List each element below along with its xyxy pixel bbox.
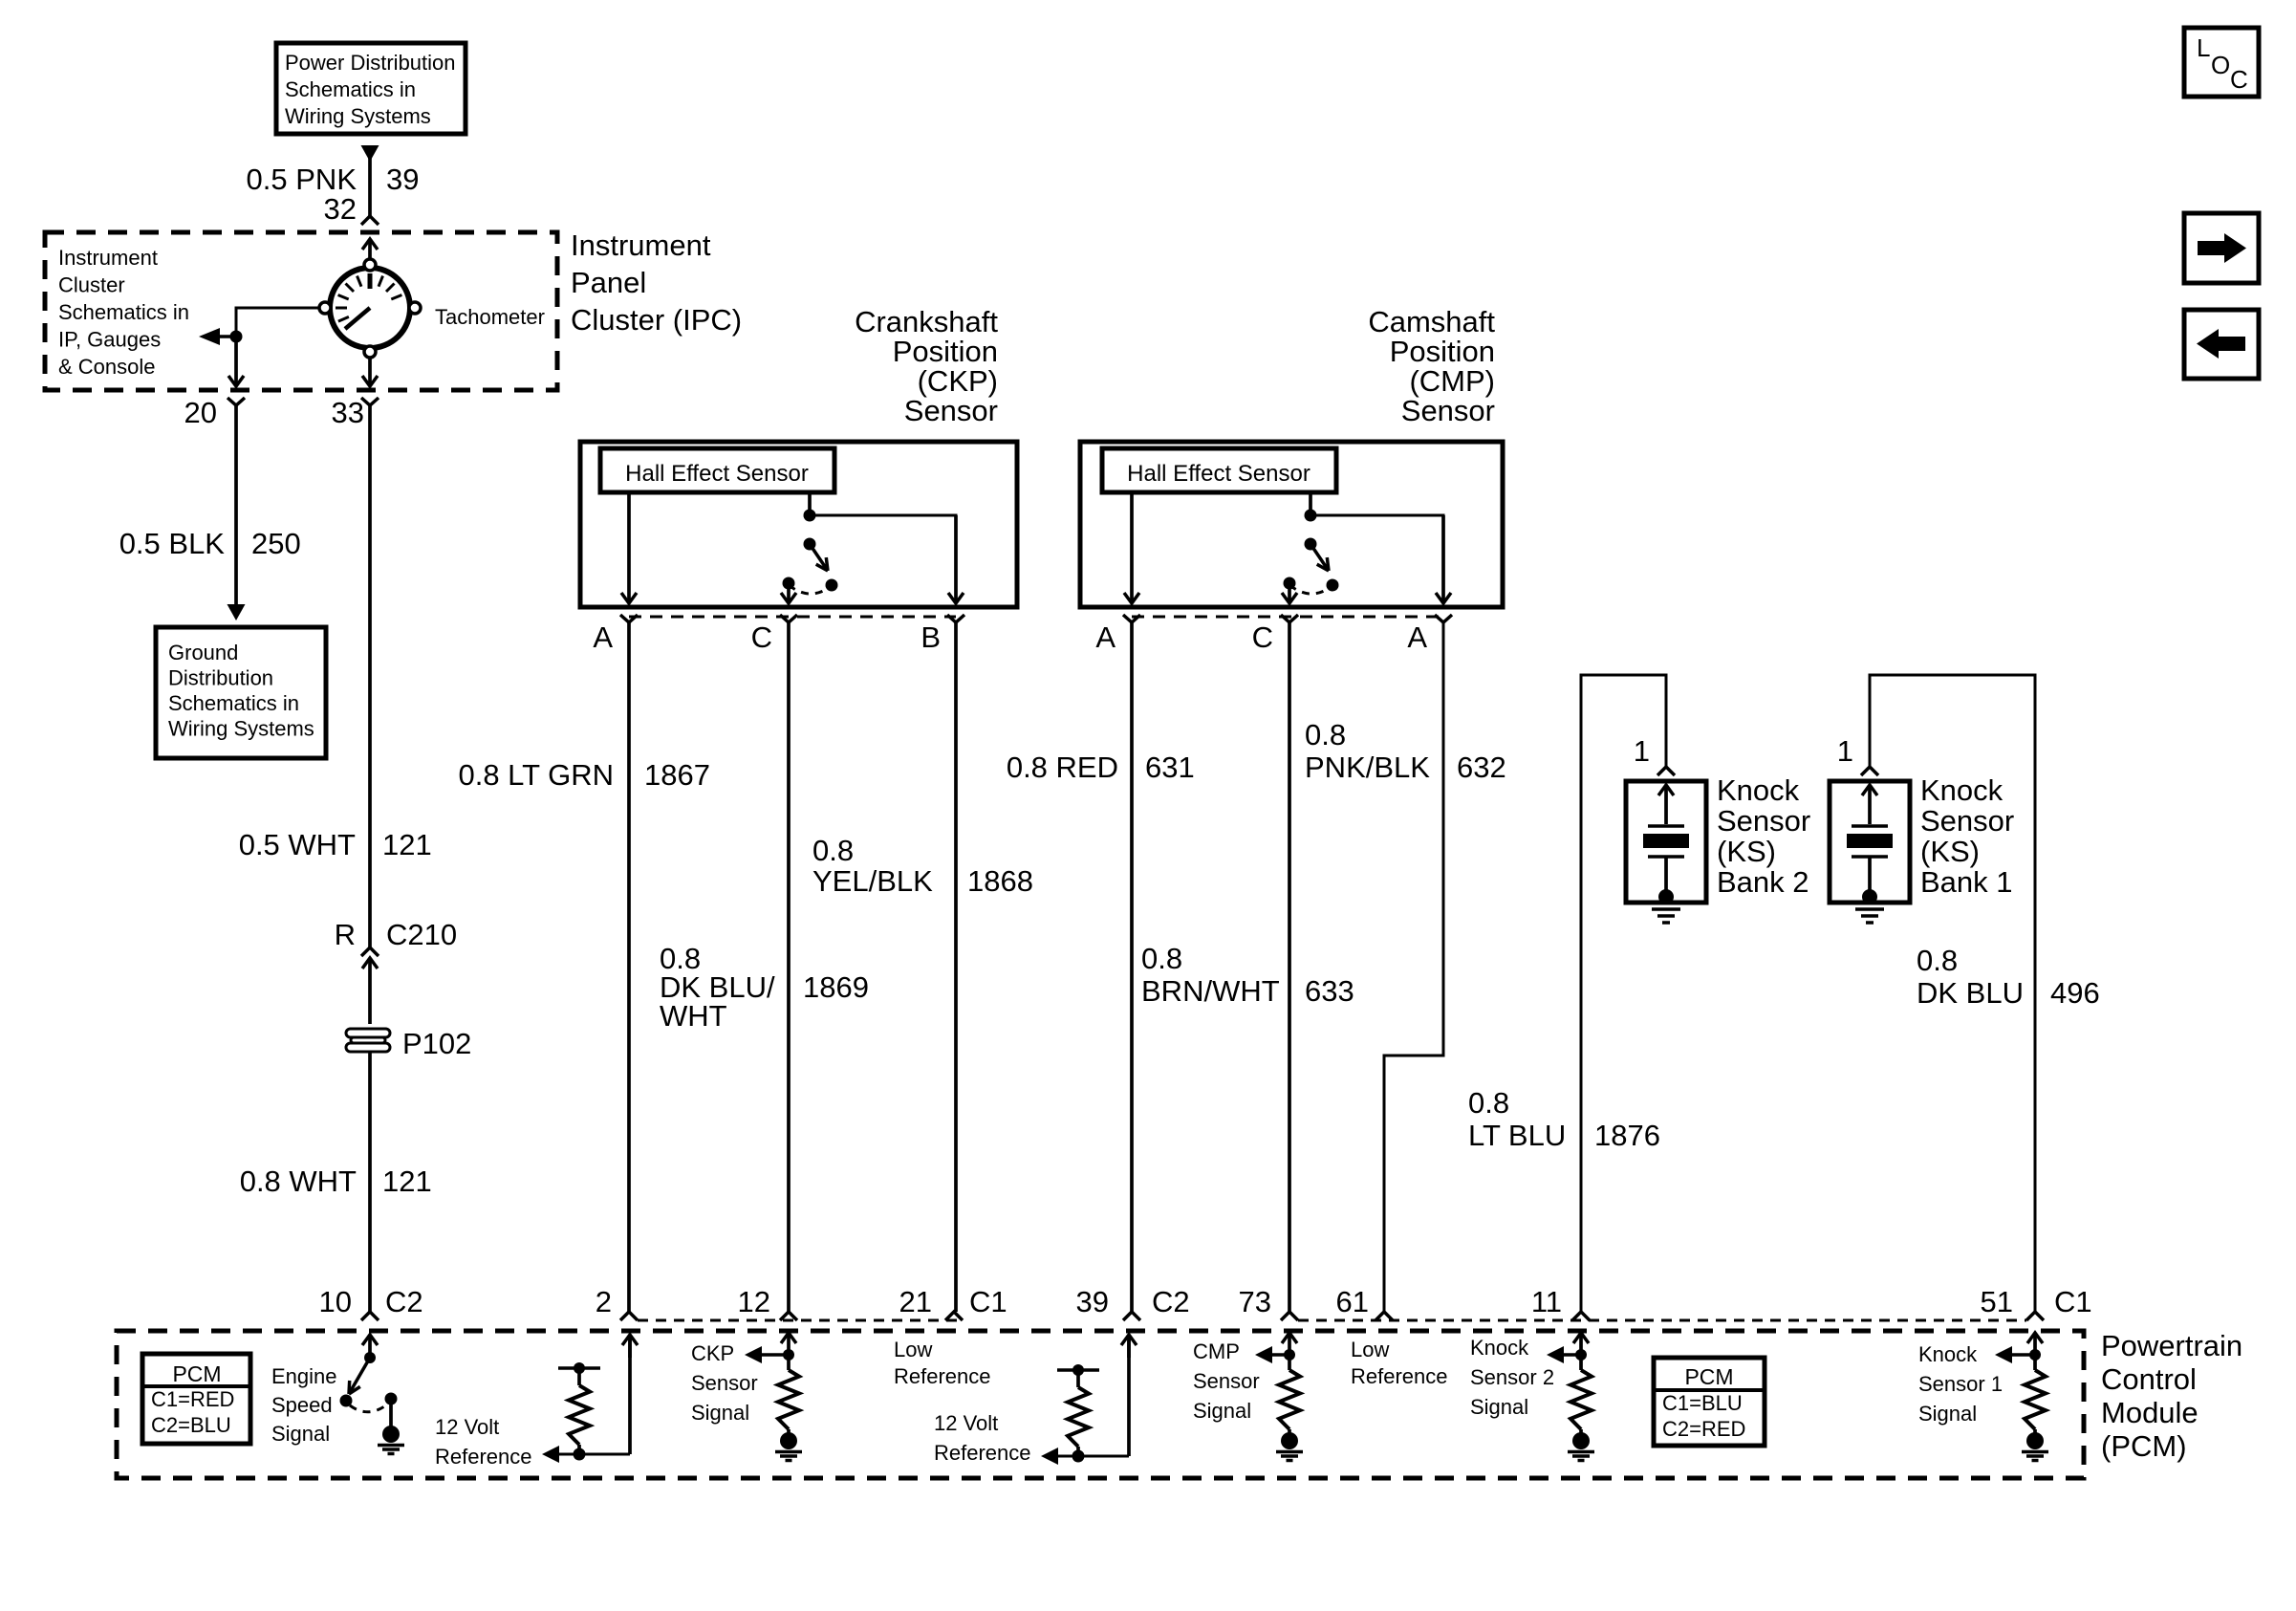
- svg-text:121: 121: [382, 1165, 432, 1198]
- svg-text:PCM: PCM: [1684, 1364, 1733, 1389]
- svg-text:Signal: Signal: [1193, 1399, 1251, 1423]
- svg-text:Engine: Engine: [271, 1364, 337, 1388]
- svg-text:Position: Position: [893, 335, 998, 368]
- svg-text:A: A: [593, 620, 613, 654]
- svg-text:0.8: 0.8: [812, 834, 854, 867]
- svg-text:C1=RED: C1=RED: [151, 1387, 234, 1411]
- svg-text:Crankshaft: Crankshaft: [855, 305, 998, 338]
- svg-text:IP, Gauges: IP, Gauges: [58, 328, 161, 352]
- svg-text:DK BLU: DK BLU: [1917, 976, 2024, 1010]
- svg-text:C1=BLU: C1=BLU: [1662, 1391, 1743, 1415]
- svg-text:Powertrain: Powertrain: [2101, 1329, 2242, 1362]
- svg-text:Sensor 1: Sensor 1: [1918, 1372, 2003, 1396]
- svg-text:CMP: CMP: [1193, 1339, 1240, 1363]
- svg-text:YEL/BLK: YEL/BLK: [812, 864, 933, 898]
- svg-text:(KS): (KS): [1920, 835, 1980, 868]
- svg-text:O: O: [2211, 51, 2230, 79]
- svg-text:PNK/BLK: PNK/BLK: [1305, 751, 1430, 784]
- svg-text:Schematics in: Schematics in: [168, 691, 299, 715]
- svg-text:2: 2: [596, 1285, 612, 1318]
- svg-text:A: A: [1407, 620, 1427, 654]
- svg-text:Signal: Signal: [1470, 1395, 1528, 1419]
- svg-text:Sensor: Sensor: [1401, 394, 1495, 427]
- svg-text:Reference: Reference: [894, 1364, 991, 1388]
- svg-text:(KS): (KS): [1717, 835, 1776, 868]
- svg-text:Wiring Systems: Wiring Systems: [285, 104, 431, 128]
- svg-text:Sensor: Sensor: [1717, 804, 1810, 838]
- svg-text:(PCM): (PCM): [2101, 1429, 2187, 1463]
- svg-text:Bank 1: Bank 1: [1920, 865, 2013, 899]
- svg-text:WHT: WHT: [660, 999, 727, 1033]
- svg-text:20: 20: [184, 396, 217, 429]
- svg-text:12 Volt: 12 Volt: [435, 1415, 499, 1439]
- svg-text:Reference: Reference: [934, 1441, 1031, 1465]
- svg-text:Distribution: Distribution: [168, 666, 273, 690]
- svg-text:C2=RED: C2=RED: [1662, 1417, 1745, 1441]
- svg-text:Speed: Speed: [271, 1393, 333, 1417]
- svg-text:Sensor: Sensor: [1193, 1369, 1260, 1393]
- svg-text:Knock: Knock: [1920, 773, 2004, 807]
- svg-text:Instrument: Instrument: [571, 229, 711, 262]
- svg-text:Module: Module: [2101, 1396, 2199, 1429]
- svg-text:(CKP): (CKP): [918, 364, 998, 398]
- svg-text:& Console: & Console: [58, 355, 156, 379]
- svg-text:BRN/WHT: BRN/WHT: [1141, 974, 1280, 1008]
- svg-text:633: 633: [1305, 974, 1354, 1008]
- svg-text:0.8: 0.8: [1917, 944, 1958, 977]
- svg-text:0.8 WHT: 0.8 WHT: [240, 1165, 357, 1198]
- svg-text:Sensor: Sensor: [1920, 804, 2014, 838]
- svg-text:Low: Low: [894, 1338, 932, 1361]
- svg-text:C1: C1: [2054, 1285, 2092, 1318]
- svg-text:Hall Effect Sensor: Hall Effect Sensor: [1127, 461, 1310, 487]
- svg-text:73: 73: [1239, 1285, 1271, 1318]
- svg-text:631: 631: [1145, 751, 1195, 784]
- svg-text:1: 1: [1634, 734, 1650, 768]
- svg-text:Reference: Reference: [1351, 1364, 1448, 1388]
- svg-text:Signal: Signal: [271, 1422, 330, 1446]
- svg-text:Low: Low: [1351, 1338, 1389, 1361]
- svg-text:Bank 2: Bank 2: [1717, 865, 1809, 899]
- svg-text:Cluster: Cluster: [58, 273, 125, 297]
- svg-text:Hall Effect Sensor: Hall Effect Sensor: [625, 461, 809, 487]
- svg-text:Instrument: Instrument: [58, 246, 158, 270]
- svg-text:C210: C210: [386, 918, 457, 951]
- svg-text:121: 121: [382, 828, 432, 861]
- svg-text:Ground: Ground: [168, 641, 238, 664]
- svg-text:0.8: 0.8: [1468, 1086, 1509, 1120]
- svg-text:Sensor 2: Sensor 2: [1470, 1365, 1554, 1389]
- svg-text:Knock: Knock: [1717, 773, 1800, 807]
- svg-text:39: 39: [386, 163, 419, 196]
- svg-text:12: 12: [738, 1285, 770, 1318]
- svg-text:250: 250: [251, 527, 301, 560]
- svg-text:0.5 WHT: 0.5 WHT: [239, 828, 356, 861]
- svg-text:1: 1: [1837, 734, 1853, 768]
- svg-text:C: C: [1252, 620, 1273, 654]
- svg-text:0.8 LT GRN: 0.8 LT GRN: [458, 758, 614, 792]
- svg-text:LT BLU: LT BLU: [1468, 1119, 1566, 1152]
- svg-text:A: A: [1095, 620, 1116, 654]
- svg-text:C: C: [2230, 65, 2248, 94]
- svg-text:Camshaft: Camshaft: [1368, 305, 1495, 338]
- svg-text:10: 10: [319, 1285, 352, 1318]
- svg-text:C1: C1: [969, 1285, 1007, 1318]
- svg-text:0.8: 0.8: [1305, 718, 1346, 751]
- svg-text:(CMP): (CMP): [1409, 364, 1495, 398]
- svg-text:61: 61: [1336, 1285, 1369, 1318]
- svg-text:12 Volt: 12 Volt: [934, 1411, 998, 1435]
- svg-text:1869: 1869: [803, 970, 869, 1004]
- svg-text:B: B: [921, 620, 941, 654]
- svg-text:Cluster (IPC): Cluster (IPC): [571, 303, 742, 337]
- svg-text:C: C: [751, 620, 772, 654]
- svg-text:Sensor: Sensor: [904, 394, 998, 427]
- svg-text:C2: C2: [1152, 1285, 1190, 1318]
- svg-text:1876: 1876: [1594, 1119, 1660, 1152]
- svg-text:Tachometer: Tachometer: [435, 305, 545, 329]
- svg-text:632: 632: [1457, 751, 1506, 784]
- svg-text:0.8 RED: 0.8 RED: [1007, 751, 1118, 784]
- svg-text:496: 496: [2050, 976, 2100, 1010]
- svg-text:Schematics in: Schematics in: [58, 300, 189, 324]
- svg-text:P102: P102: [402, 1027, 471, 1060]
- svg-text:21: 21: [899, 1285, 932, 1318]
- svg-text:32: 32: [324, 192, 357, 226]
- svg-text:Schematics in: Schematics in: [285, 77, 416, 101]
- svg-text:1867: 1867: [644, 758, 710, 792]
- svg-text:PCM: PCM: [172, 1361, 221, 1386]
- svg-text:Knock: Knock: [1918, 1342, 1978, 1366]
- svg-text:0.8: 0.8: [1141, 942, 1182, 975]
- svg-text:Power Distribution: Power Distribution: [285, 51, 456, 75]
- svg-text:1868: 1868: [967, 864, 1033, 898]
- svg-text:Sensor: Sensor: [691, 1371, 758, 1395]
- svg-text:L: L: [2197, 33, 2210, 62]
- svg-text:Signal: Signal: [1918, 1402, 1977, 1426]
- svg-text:Reference: Reference: [435, 1445, 532, 1469]
- svg-text:C2: C2: [385, 1285, 423, 1318]
- svg-text:39: 39: [1076, 1285, 1109, 1318]
- svg-text:CKP: CKP: [691, 1341, 734, 1365]
- svg-text:0.5 BLK: 0.5 BLK: [119, 527, 226, 560]
- svg-text:Wiring Systems: Wiring Systems: [168, 717, 314, 741]
- svg-text:Panel: Panel: [571, 266, 646, 299]
- svg-text:C2=BLU: C2=BLU: [151, 1413, 231, 1437]
- svg-text:Position: Position: [1390, 335, 1495, 368]
- svg-text:33: 33: [332, 396, 364, 429]
- svg-text:Signal: Signal: [691, 1401, 749, 1425]
- svg-text:R: R: [335, 918, 356, 951]
- svg-text:0.5 PNK: 0.5 PNK: [247, 163, 357, 196]
- svg-text:51: 51: [1981, 1285, 2013, 1318]
- svg-text:Knock: Knock: [1470, 1336, 1529, 1360]
- svg-text:Control: Control: [2101, 1362, 2197, 1396]
- svg-text:11: 11: [1531, 1285, 1562, 1318]
